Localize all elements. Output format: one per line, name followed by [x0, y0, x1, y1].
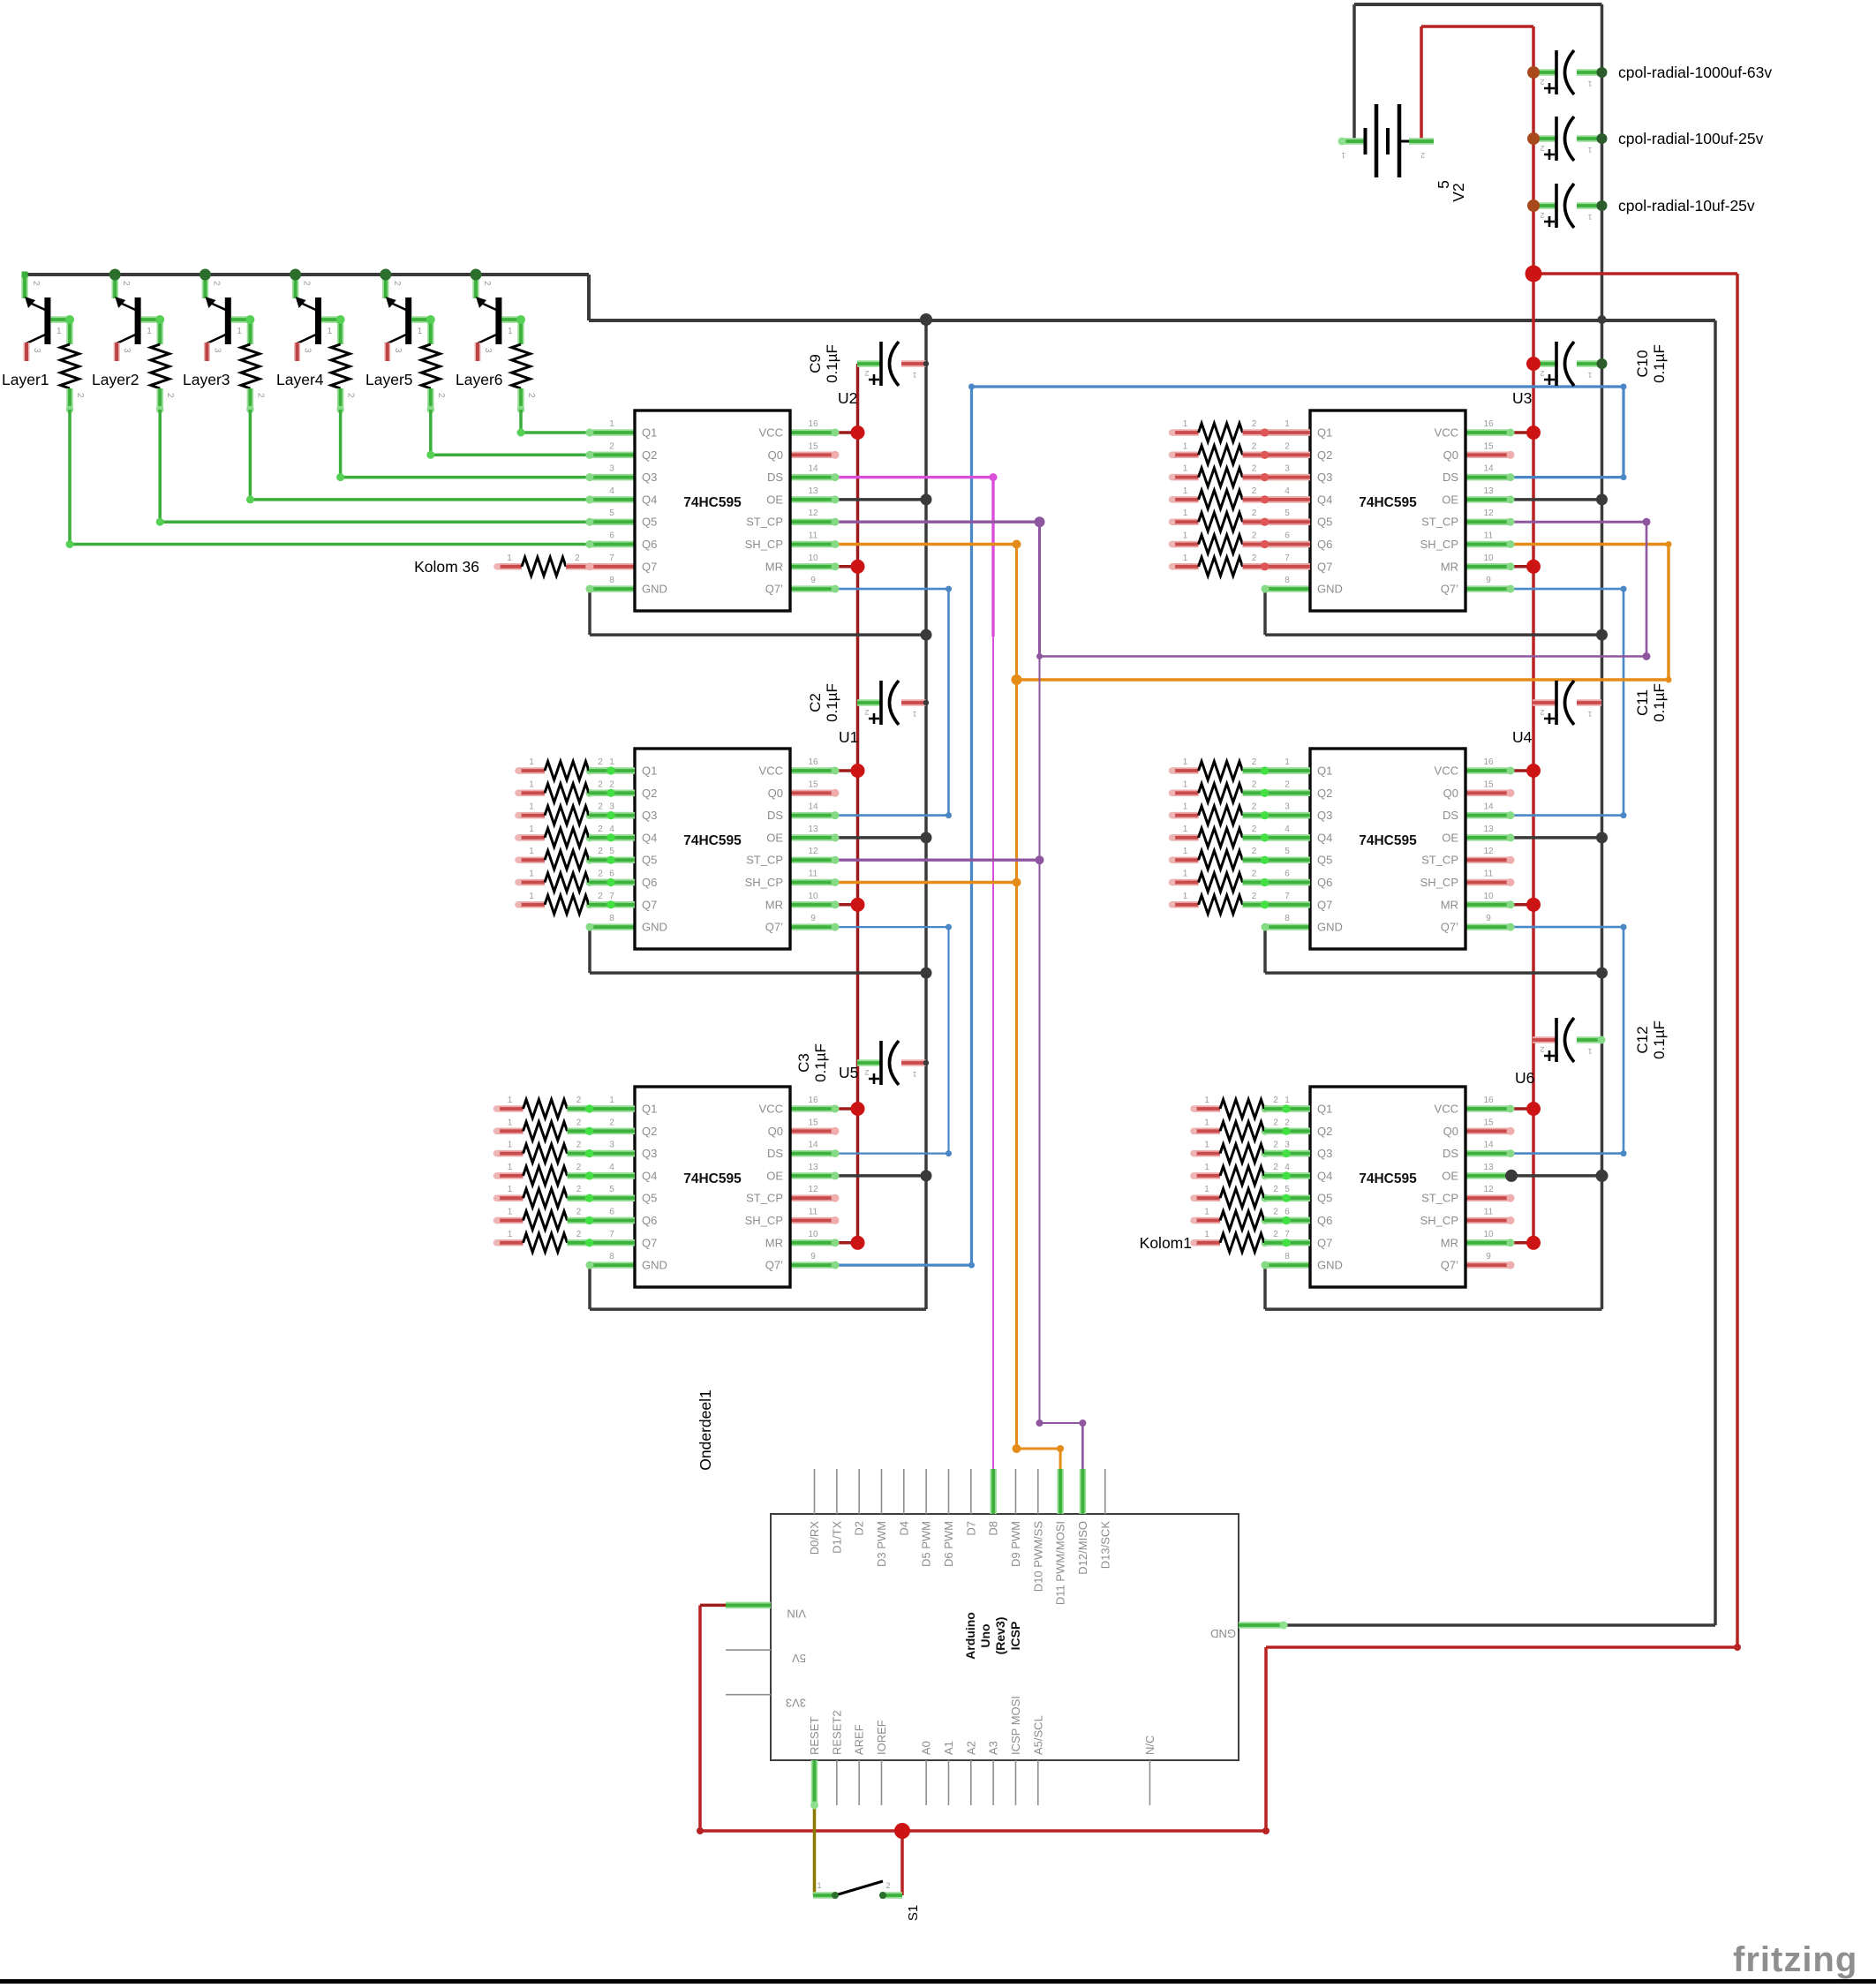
svg-text:16: 16 [808, 419, 818, 429]
svg-text:DS: DS [767, 809, 783, 822]
svg-text:2: 2 [576, 1118, 582, 1127]
svg-text:Q7’: Q7’ [1441, 921, 1458, 934]
svg-text:A2: A2 [964, 1741, 977, 1755]
svg-text:D9 PWM: D9 PWM [1009, 1521, 1022, 1567]
svg-text:16: 16 [1483, 419, 1494, 429]
svg-text:D1/TX: D1/TX [830, 1521, 843, 1554]
svg-text:IOREF: IOREF [875, 1720, 888, 1755]
svg-text:Q1: Q1 [642, 764, 657, 778]
svg-text:7: 7 [609, 553, 614, 563]
svg-text:D5 PWM: D5 PWM [920, 1521, 933, 1567]
svg-text:2: 2 [575, 553, 580, 563]
svg-text:1: 1 [529, 892, 534, 901]
svg-text:1: 1 [912, 1070, 916, 1079]
svg-text:3: 3 [122, 348, 132, 353]
svg-text:1: 1 [1204, 1163, 1209, 1172]
svg-text:2: 2 [1252, 553, 1257, 563]
svg-text:Layer6: Layer6 [456, 371, 503, 388]
svg-text:2: 2 [598, 847, 603, 856]
svg-text:Q5: Q5 [642, 1192, 657, 1205]
svg-text:DS: DS [1443, 1147, 1458, 1160]
svg-text:2: 2 [1540, 369, 1544, 378]
svg-text:10: 10 [808, 1230, 818, 1239]
svg-text:D11 PWM/MOSI: D11 PWM/MOSI [1054, 1521, 1067, 1605]
svg-text:C11: C11 [1634, 689, 1651, 716]
svg-text:16: 16 [808, 757, 818, 767]
svg-text:Q4: Q4 [1317, 1169, 1332, 1182]
svg-text:4: 4 [1285, 1163, 1290, 1172]
svg-text:D6 PWM: D6 PWM [942, 1521, 955, 1567]
svg-text:15: 15 [808, 779, 818, 789]
svg-text:11: 11 [809, 1208, 818, 1217]
svg-text:5: 5 [609, 847, 614, 856]
svg-text:1: 1 [1204, 1118, 1209, 1127]
svg-text:Q7’: Q7’ [765, 583, 783, 596]
svg-text:1: 1 [508, 327, 513, 336]
svg-text:OE: OE [766, 1169, 783, 1182]
svg-text:OE: OE [1442, 1169, 1458, 1182]
svg-text:0.1µF: 0.1µF [1651, 683, 1668, 722]
svg-text:1: 1 [1183, 870, 1188, 879]
svg-text:0.1µF: 0.1µF [824, 683, 840, 722]
svg-text:SH_CP: SH_CP [745, 1214, 783, 1227]
svg-text:3: 3 [609, 464, 614, 474]
svg-text:1: 1 [328, 327, 333, 336]
svg-text:V2: V2 [1450, 183, 1467, 201]
svg-text:GND: GND [642, 583, 667, 596]
svg-text:MR: MR [765, 898, 783, 911]
svg-text:Q6: Q6 [1317, 538, 1332, 551]
svg-text:Q1: Q1 [642, 426, 657, 440]
svg-text:1: 1 [507, 553, 512, 563]
svg-text:D12/MISO: D12/MISO [1076, 1521, 1089, 1575]
svg-text:1: 1 [912, 371, 916, 380]
svg-text:3: 3 [32, 348, 41, 353]
svg-text:74HC595: 74HC595 [683, 1171, 742, 1186]
svg-text:2: 2 [211, 281, 221, 286]
svg-text:4: 4 [609, 1163, 614, 1172]
svg-text:SH_CP: SH_CP [1420, 538, 1458, 551]
svg-text:12: 12 [808, 847, 818, 856]
svg-text:2: 2 [1252, 802, 1257, 812]
svg-text:Q0: Q0 [1443, 787, 1458, 800]
svg-text:2: 2 [598, 870, 603, 879]
svg-text:ST_CP: ST_CP [1421, 516, 1458, 529]
svg-text:10: 10 [808, 892, 818, 901]
svg-text:1: 1 [1204, 1141, 1209, 1150]
svg-text:1: 1 [1183, 757, 1188, 767]
svg-text:U6: U6 [1515, 1069, 1534, 1087]
svg-text:GND: GND [1317, 583, 1343, 596]
svg-text:GND: GND [642, 921, 667, 934]
svg-text:2: 2 [1252, 779, 1257, 789]
svg-text:1: 1 [1587, 79, 1592, 88]
svg-text:6: 6 [609, 1208, 614, 1217]
svg-text:2: 2 [1540, 78, 1544, 87]
svg-text:1: 1 [1183, 486, 1188, 496]
svg-text:Q5: Q5 [642, 516, 657, 529]
svg-text:5V: 5V [792, 1652, 806, 1665]
svg-text:ST_CP: ST_CP [1421, 1192, 1458, 1205]
svg-text:2: 2 [1252, 464, 1257, 474]
svg-text:10: 10 [1483, 892, 1494, 901]
svg-text:74HC595: 74HC595 [1359, 495, 1417, 510]
svg-text:ST_CP: ST_CP [746, 854, 783, 867]
svg-text:Q4: Q4 [1317, 493, 1332, 506]
svg-text:12: 12 [1483, 1185, 1494, 1194]
svg-text:Q3: Q3 [642, 1147, 657, 1160]
svg-text:1: 1 [1183, 531, 1188, 541]
svg-text:3: 3 [303, 348, 313, 353]
svg-text:ST_CP: ST_CP [746, 516, 783, 529]
svg-text:2: 2 [302, 281, 312, 286]
svg-text:14: 14 [1483, 802, 1494, 812]
svg-text:1: 1 [57, 327, 62, 336]
svg-text:2: 2 [864, 1068, 869, 1077]
svg-text:3: 3 [1285, 464, 1290, 474]
svg-text:10: 10 [1483, 1230, 1494, 1239]
svg-text:3: 3 [212, 348, 222, 353]
svg-text:2: 2 [609, 441, 614, 451]
svg-text:3: 3 [609, 802, 614, 812]
svg-text:5: 5 [1285, 847, 1290, 856]
svg-text:Q6: Q6 [1317, 876, 1332, 889]
svg-text:5: 5 [609, 508, 614, 518]
svg-text:Q7: Q7 [1317, 560, 1332, 573]
svg-text:2: 2 [1540, 144, 1544, 153]
svg-text:Layer4: Layer4 [276, 371, 324, 388]
svg-text:Q2: Q2 [642, 1125, 657, 1138]
svg-text:Q2: Q2 [642, 787, 657, 800]
svg-text:8: 8 [609, 914, 614, 923]
svg-text:6: 6 [1285, 870, 1290, 879]
svg-text:1: 1 [1587, 146, 1592, 154]
svg-text:1: 1 [237, 327, 242, 336]
svg-text:1: 1 [912, 710, 916, 719]
svg-text:Q2: Q2 [642, 448, 657, 462]
svg-text:Q3: Q3 [1317, 809, 1332, 822]
svg-text:1: 1 [508, 1141, 513, 1150]
svg-text:14: 14 [1483, 1141, 1494, 1150]
svg-text:Q7: Q7 [642, 898, 657, 911]
svg-text:12: 12 [1483, 508, 1494, 518]
svg-text:Layer5: Layer5 [365, 371, 413, 388]
svg-text:2: 2 [1273, 1141, 1278, 1150]
svg-text:3: 3 [609, 1141, 614, 1150]
svg-text:D4: D4 [897, 1521, 910, 1536]
svg-text:D2: D2 [853, 1521, 866, 1536]
svg-text:2: 2 [576, 1096, 582, 1105]
svg-text:Q6: Q6 [1317, 1214, 1332, 1227]
svg-text:AREF: AREF [853, 1724, 866, 1755]
svg-text:16: 16 [808, 1096, 818, 1105]
svg-text:1: 1 [1285, 419, 1290, 429]
svg-text:13: 13 [808, 825, 818, 834]
svg-text:2: 2 [609, 779, 614, 789]
svg-text:12: 12 [808, 1185, 818, 1194]
svg-text:Q7’: Q7’ [1441, 1259, 1458, 1272]
svg-text:Q0: Q0 [1443, 448, 1458, 462]
svg-text:2: 2 [598, 757, 603, 767]
svg-text:A3: A3 [987, 1741, 1000, 1755]
svg-text:74HC595: 74HC595 [1359, 1171, 1417, 1186]
svg-text:9: 9 [1486, 1252, 1491, 1261]
svg-text:1: 1 [1587, 213, 1592, 222]
svg-text:2: 2 [1252, 847, 1257, 856]
svg-text:2: 2 [1252, 419, 1257, 429]
svg-text:15: 15 [808, 441, 818, 451]
svg-text:1: 1 [609, 757, 614, 767]
svg-text:Arduino: Arduino [963, 1612, 977, 1660]
svg-text:Q4: Q4 [642, 1169, 657, 1182]
svg-text:GND: GND [642, 1259, 667, 1272]
svg-text:13: 13 [1483, 825, 1494, 834]
svg-text:1: 1 [1183, 802, 1188, 812]
svg-text:Q0: Q0 [768, 787, 783, 800]
svg-text:GND: GND [1317, 1259, 1343, 1272]
svg-text:Q5: Q5 [1317, 854, 1332, 867]
svg-text:Q4: Q4 [642, 493, 657, 506]
svg-text:5: 5 [1285, 1185, 1290, 1194]
svg-text:cpol-radial-10uf-25v: cpol-radial-10uf-25v [1618, 197, 1755, 215]
svg-text:0.1µF: 0.1µF [1651, 1020, 1668, 1059]
svg-text:OE: OE [1442, 493, 1458, 506]
svg-text:13: 13 [808, 1163, 818, 1172]
svg-text:Layer2: Layer2 [92, 371, 139, 388]
svg-text:16: 16 [1483, 757, 1494, 767]
svg-text:2: 2 [609, 1118, 614, 1127]
svg-text:5: 5 [609, 1185, 614, 1194]
svg-text:D10 PWM/SS: D10 PWM/SS [1031, 1521, 1044, 1593]
svg-text:Q0: Q0 [1443, 1125, 1458, 1138]
svg-text:MR: MR [1441, 1236, 1458, 1249]
svg-text:11: 11 [1484, 1208, 1494, 1217]
svg-text:Q5: Q5 [1317, 1192, 1332, 1205]
svg-text:1: 1 [1183, 553, 1188, 563]
svg-text:11: 11 [1484, 531, 1494, 541]
svg-text:2: 2 [1252, 441, 1257, 451]
svg-text:Q3: Q3 [1317, 471, 1332, 484]
svg-text:SH_CP: SH_CP [1420, 876, 1458, 889]
svg-text:Q2: Q2 [1317, 448, 1332, 462]
svg-text:2: 2 [1273, 1208, 1278, 1217]
svg-text:1: 1 [529, 870, 534, 879]
svg-text:1: 1 [508, 1185, 513, 1194]
svg-text:10: 10 [1483, 553, 1494, 563]
svg-text:U1: U1 [839, 728, 858, 746]
svg-text:VCC: VCC [759, 764, 783, 778]
svg-text:Q0: Q0 [768, 448, 783, 462]
svg-text:4: 4 [609, 825, 614, 834]
svg-text:C2: C2 [807, 693, 824, 712]
svg-text:VCC: VCC [1435, 764, 1458, 778]
svg-text:Q3: Q3 [642, 809, 657, 822]
svg-text:2: 2 [1540, 1045, 1544, 1054]
svg-text:1: 1 [529, 757, 534, 767]
svg-text:Q1: Q1 [1317, 764, 1332, 778]
svg-text:1: 1 [529, 847, 534, 856]
svg-text:13: 13 [1483, 486, 1494, 496]
svg-text:D7: D7 [964, 1521, 977, 1536]
svg-text:SH_CP: SH_CP [745, 876, 783, 889]
svg-text:Q7: Q7 [1317, 1236, 1332, 1249]
svg-text:15: 15 [808, 1118, 818, 1127]
svg-text:2: 2 [1540, 708, 1544, 717]
svg-text:3: 3 [1285, 1141, 1290, 1150]
svg-text:2: 2 [1273, 1230, 1278, 1239]
svg-text:A1: A1 [942, 1741, 955, 1755]
svg-text:1: 1 [1183, 419, 1188, 429]
svg-text:Onderdeel1: Onderdeel1 [697, 1389, 714, 1470]
svg-text:2: 2 [598, 825, 603, 834]
svg-text:GND: GND [1317, 921, 1343, 934]
svg-text:7: 7 [609, 892, 614, 901]
svg-text:cpol-radial-1000uf-63v: cpol-radial-1000uf-63v [1618, 64, 1772, 81]
svg-text:Q1: Q1 [1317, 1103, 1332, 1116]
svg-text:2: 2 [1252, 870, 1257, 879]
svg-text:12: 12 [1483, 847, 1494, 856]
svg-text:2: 2 [1273, 1096, 1278, 1105]
svg-text:1: 1 [508, 1163, 513, 1172]
svg-text:16: 16 [1483, 1096, 1494, 1105]
svg-text:Q1: Q1 [1317, 426, 1332, 440]
svg-text:15: 15 [1483, 779, 1494, 789]
svg-text:MR: MR [765, 560, 783, 573]
svg-text:1: 1 [147, 327, 152, 336]
svg-text:VCC: VCC [759, 426, 783, 440]
svg-text:Q7’: Q7’ [765, 921, 783, 934]
svg-text:1: 1 [609, 419, 614, 429]
svg-text:1: 1 [1204, 1208, 1209, 1217]
svg-text:Layer1: Layer1 [2, 371, 49, 388]
svg-text:Kolom 36: Kolom 36 [414, 558, 479, 576]
svg-text:MR: MR [1441, 898, 1458, 911]
svg-text:D13/SCK: D13/SCK [1098, 1521, 1111, 1570]
svg-text:2: 2 [1285, 1118, 1290, 1127]
svg-text:Q7: Q7 [642, 560, 657, 573]
svg-text:Q4: Q4 [642, 831, 657, 844]
svg-text:2: 2 [1273, 1163, 1278, 1172]
svg-text:1: 1 [1204, 1096, 1209, 1105]
svg-text:1: 1 [508, 1118, 513, 1127]
svg-text:3V3: 3V3 [786, 1697, 806, 1710]
svg-text:1: 1 [508, 1208, 513, 1217]
svg-text:11: 11 [1484, 870, 1494, 879]
svg-text:ST_CP: ST_CP [1421, 854, 1458, 867]
svg-text:N/C: N/C [1143, 1736, 1156, 1755]
svg-text:2: 2 [1273, 1118, 1278, 1127]
svg-text:1: 1 [508, 1230, 513, 1239]
svg-text:Q7’: Q7’ [765, 1259, 783, 1272]
svg-text:7: 7 [1285, 892, 1290, 901]
svg-text:1: 1 [1587, 710, 1592, 719]
svg-text:74HC595: 74HC595 [1359, 833, 1417, 848]
svg-text:9: 9 [810, 1252, 816, 1261]
svg-text:ST_CP: ST_CP [746, 1192, 783, 1205]
svg-text:9: 9 [1486, 914, 1491, 923]
svg-text:2: 2 [1252, 757, 1257, 767]
svg-text:15: 15 [1483, 441, 1494, 451]
svg-text:3: 3 [1285, 802, 1290, 812]
svg-text:4: 4 [1285, 486, 1290, 496]
svg-text:1: 1 [1204, 1185, 1209, 1194]
svg-text:U3: U3 [1512, 389, 1532, 407]
svg-text:fritzing: fritzing [1733, 1940, 1857, 1979]
svg-text:Q3: Q3 [642, 471, 657, 484]
svg-text:2: 2 [1252, 531, 1257, 541]
svg-text:11: 11 [809, 531, 818, 541]
svg-text:Q6: Q6 [642, 1214, 657, 1227]
svg-text:1: 1 [1183, 825, 1188, 834]
svg-text:3: 3 [483, 348, 493, 353]
svg-text:0.1µF: 0.1µF [824, 344, 840, 383]
svg-text:6: 6 [1285, 531, 1290, 541]
svg-text:S1: S1 [906, 1905, 921, 1921]
svg-text:Q5: Q5 [642, 854, 657, 867]
svg-text:Q6: Q6 [642, 876, 657, 889]
svg-text:RESET2: RESET2 [830, 1710, 843, 1755]
svg-text:1: 1 [1587, 1047, 1592, 1056]
svg-text:9: 9 [1486, 576, 1491, 585]
svg-text:OE: OE [766, 831, 783, 844]
svg-text:15: 15 [1483, 1118, 1494, 1127]
svg-text:2: 2 [598, 779, 603, 789]
svg-text:13: 13 [1483, 1163, 1494, 1172]
svg-text:9: 9 [810, 914, 816, 923]
svg-text:Uno: Uno [978, 1623, 992, 1647]
svg-text:2: 2 [165, 393, 175, 398]
svg-text:2: 2 [576, 1208, 582, 1217]
svg-text:1: 1 [508, 1096, 513, 1105]
svg-text:MR: MR [765, 1236, 783, 1249]
svg-text:4: 4 [609, 486, 614, 496]
svg-text:6: 6 [1285, 1208, 1290, 1217]
svg-text:Q2: Q2 [1317, 1125, 1332, 1138]
svg-text:Layer3: Layer3 [183, 371, 230, 388]
svg-text:U4: U4 [1512, 728, 1533, 746]
svg-text:ICSP MOSI: ICSP MOSI [1009, 1696, 1022, 1755]
svg-text:2: 2 [436, 393, 446, 398]
svg-text:2: 2 [1540, 211, 1544, 220]
svg-text:cpol-radial-100uf-25v: cpol-radial-100uf-25v [1618, 130, 1764, 147]
svg-text:74HC595: 74HC595 [683, 495, 742, 510]
svg-text:VCC: VCC [1435, 1103, 1458, 1116]
svg-text:1: 1 [817, 1881, 821, 1890]
svg-text:7: 7 [609, 1230, 614, 1239]
svg-text:Q1: Q1 [642, 1103, 657, 1116]
svg-text:1: 1 [529, 802, 534, 812]
svg-text:Q0: Q0 [768, 1125, 783, 1138]
svg-text:2: 2 [576, 1185, 582, 1194]
svg-text:13: 13 [808, 486, 818, 496]
svg-text:5: 5 [1285, 508, 1290, 518]
svg-text:1: 1 [1204, 1230, 1209, 1239]
svg-text:D8: D8 [987, 1521, 1000, 1536]
svg-text:6: 6 [609, 531, 614, 541]
svg-text:2: 2 [1285, 779, 1290, 789]
svg-text:2: 2 [864, 708, 869, 717]
svg-text:DS: DS [1443, 471, 1458, 484]
svg-text:C3: C3 [795, 1053, 812, 1073]
svg-text:C9: C9 [807, 354, 824, 373]
svg-text:MR: MR [1441, 560, 1458, 573]
svg-text:7: 7 [1285, 553, 1290, 563]
svg-text:8: 8 [1285, 914, 1290, 923]
svg-text:OE: OE [766, 493, 783, 506]
svg-text:OE: OE [1442, 831, 1458, 844]
svg-text:(Rev3): (Rev3) [993, 1617, 1007, 1655]
svg-text:14: 14 [808, 1141, 818, 1150]
